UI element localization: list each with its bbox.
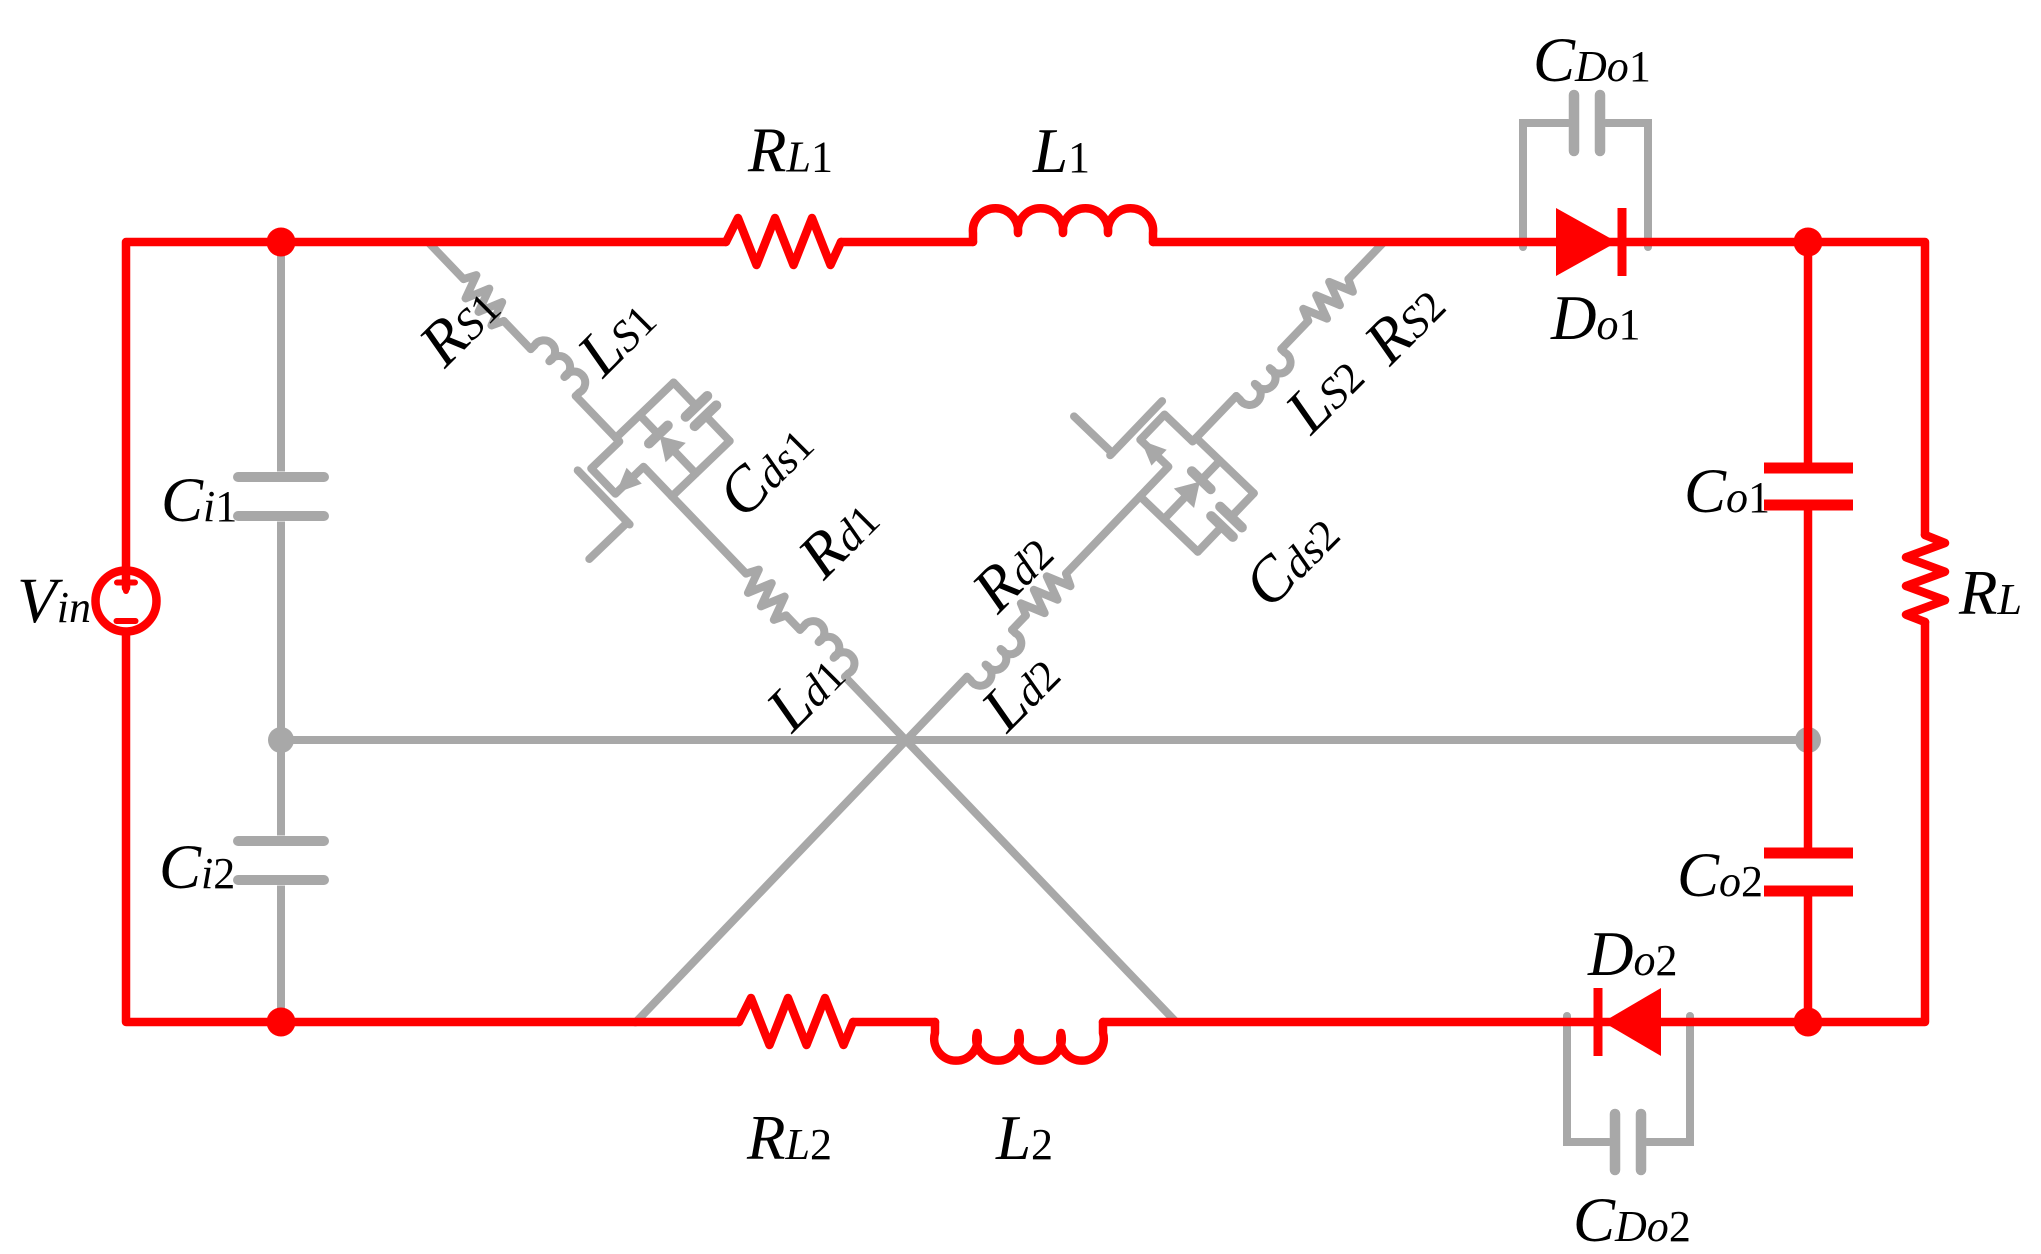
wire: middle gray bus	[281, 736, 1808, 744]
wire branch2 lead-in	[1348, 243, 1383, 279]
capacitor CDo2	[1567, 1016, 1690, 1170]
wire branch2 lead-out	[635, 677, 967, 1023]
resistor RL2	[739, 998, 853, 1045]
inductor L2	[934, 1022, 1104, 1061]
wire	[1066, 496, 1140, 573]
wire: bottom segment between L2 and RL2	[853, 1018, 935, 1027]
inductor LS2	[1236, 349, 1295, 410]
Vin plus mark	[117, 573, 135, 591]
node A (top-left junction)	[267, 228, 296, 257]
node F (middle-right gray junction)	[1795, 727, 1821, 753]
wire	[786, 615, 800, 629]
transistor Q1 (MOSFET with body diode)	[539, 380, 729, 567]
wire branch1 lead-in	[429, 243, 464, 279]
wire: right rail lower part and bottom-right segment	[1103, 622, 1925, 1022]
resistor RL	[1906, 535, 1945, 622]
inductor Ld2	[967, 630, 1026, 691]
capacitor Cds2	[1187, 483, 1265, 562]
resistor RL1	[726, 218, 841, 265]
node C (bottom-left junction)	[267, 1008, 296, 1037]
diode Do2	[1598, 988, 1661, 1056]
capacitor Co2	[1764, 853, 1853, 1022]
wire	[1196, 396, 1236, 438]
capacitor Ci1	[238, 247, 324, 740]
Vin circle	[96, 571, 157, 632]
resistor Rd1	[737, 565, 794, 623]
wire: top segment between RL1 and L1	[841, 238, 973, 247]
wire: bottom-left segment and left rail lower part	[126, 633, 739, 1022]
node D (bottom-right junction)	[1794, 1008, 1823, 1037]
wire	[672, 496, 746, 573]
voltage source Vin	[96, 571, 157, 632]
node E (middle-left gray junction)	[268, 727, 294, 753]
capacitor CDo1	[1523, 95, 1648, 247]
resistor RS1	[455, 271, 512, 329]
wire	[1281, 321, 1308, 349]
wire: left rail and top-left segment	[126, 242, 726, 588]
wire: top-right segment and right rail upper part	[1153, 242, 1925, 535]
wire	[576, 396, 616, 438]
resistor Rd2	[1017, 565, 1074, 623]
capacitor Cds1	[663, 372, 741, 451]
inductor Ld1	[800, 616, 859, 677]
inductor L1	[973, 208, 1153, 242]
node B (top-right junction)	[1794, 228, 1823, 257]
inductor LS1	[531, 336, 590, 397]
diode Do1	[1556, 208, 1622, 276]
wire branch1 lead-out	[845, 677, 1175, 1021]
transistor Q2 (MOSFET with body diode)	[1066, 364, 1256, 551]
Vin minus mark	[117, 618, 136, 624]
capacitor Co1	[1764, 242, 1853, 848]
capacitor Ci2	[238, 740, 324, 1022]
wire	[1012, 615, 1026, 629]
wire	[504, 321, 531, 349]
resistor RS2	[1300, 271, 1357, 329]
